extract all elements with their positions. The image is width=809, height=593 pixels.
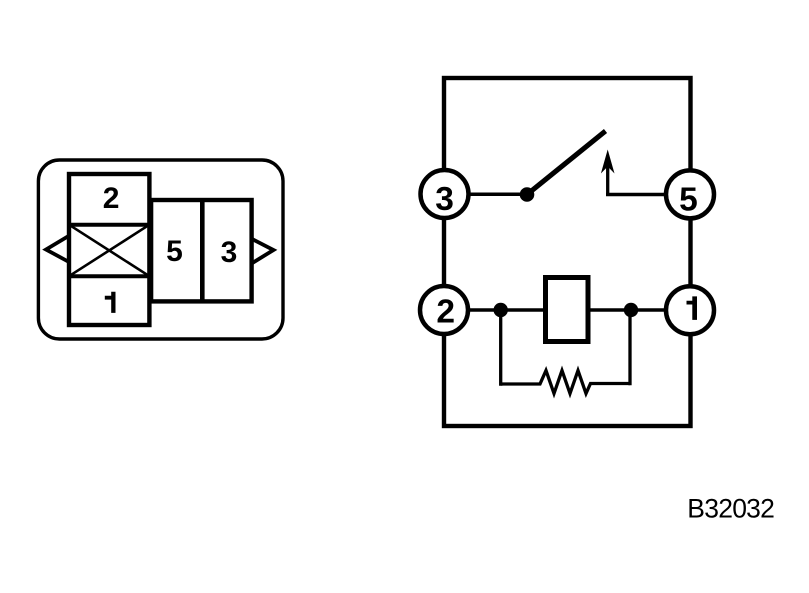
junction dot left: [494, 303, 508, 317]
keyway divider: [67, 274, 151, 278]
keyway cross: [69, 225, 149, 277]
wire terminal 3 to switch: [444, 193, 527, 197]
terminal 3: [421, 170, 469, 218]
switch contact arrow shaft: [606, 156, 609, 196]
terminal 1: [666, 286, 714, 334]
pin block divider: [200, 198, 205, 303]
relay case outline: [444, 78, 691, 426]
terminal 2: [420, 286, 468, 334]
junction dot right: [624, 303, 638, 317]
resistor R: [501, 371, 630, 394]
relay coil: [546, 278, 589, 342]
wire arrow to terminal 5: [606, 193, 690, 197]
svg-text:3: 3: [221, 236, 238, 269]
pin block 5-3 outline: [151, 200, 252, 301]
pin 1 label: [105, 292, 116, 313]
svg-text:5: 5: [166, 235, 183, 268]
switch contact arrowhead: [601, 150, 615, 174]
svg-text:5: 5: [679, 182, 698, 219]
wire terminal 2 to terminal 1: [444, 308, 691, 312]
svg-text:B32032: B32032: [687, 494, 774, 524]
svg-text:3: 3: [435, 181, 454, 218]
resistor branch left drop: [499, 310, 502, 386]
switch common junction: [520, 187, 535, 202]
switch lever: [527, 131, 606, 195]
pin 2 cavity divider: [67, 223, 151, 227]
svg-text:2: 2: [103, 182, 120, 215]
right polarization arrow: [252, 239, 274, 263]
pin column outline: [69, 174, 149, 325]
connector body outline: [38, 160, 283, 339]
resistor branch right drop: [628, 310, 631, 385]
left polarization arrow: [46, 236, 69, 262]
terminal 5: [666, 170, 714, 218]
svg-text:2: 2: [436, 294, 455, 331]
